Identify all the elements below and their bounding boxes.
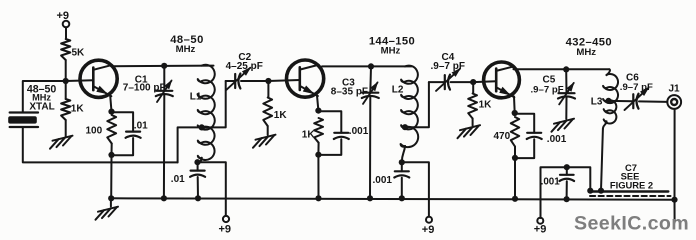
label C7 SEE FIGURE 2 <box>610 162 653 191</box>
resistor 470 (Q3 emitter) <box>494 117 520 158</box>
capacitor .001 (Q2 emitter bypass) <box>318 111 368 155</box>
svg-text:L1: L1 <box>190 91 202 102</box>
inductor L3 <box>603 69 618 129</box>
wire Q3 emitter network to rail <box>514 158 516 199</box>
resistor 1K (Q3 base) <box>468 82 492 118</box>
node Q2 emitter network bottom <box>315 152 321 158</box>
svg-text:.01: .01 <box>134 120 148 131</box>
node L2 tap <box>402 124 408 130</box>
node Q2 emitter at rail <box>315 195 321 201</box>
label L1 <box>190 91 202 102</box>
svg-text:8–35 pF: 8–35 pF <box>331 87 368 98</box>
svg-text:.001: .001 <box>349 126 369 137</box>
svg-text:L3: L3 <box>591 96 603 107</box>
wire emitter Q3 <box>513 97 516 114</box>
svg-text:.01: .01 <box>171 174 185 185</box>
label 48-50 MHz (stage 1) <box>170 34 204 55</box>
svg-text:.9–7 pF: .9–7 pF <box>431 61 465 72</box>
node C5 top <box>563 66 569 72</box>
node C4 out / Q3 base <box>470 79 476 85</box>
wire base Q2 <box>268 80 299 81</box>
resistor 1K (Q2 emitter) <box>302 118 323 155</box>
wire L3 bottom to C7 <box>601 129 603 191</box>
capacitor .01 (Q1 emitter bypass) <box>112 112 149 155</box>
inductor L2 <box>401 66 419 163</box>
svg-text:.001: .001 <box>541 177 561 188</box>
wire feedback riser to L1 tap <box>178 127 202 162</box>
wire Q2 emitter network to rail <box>317 155 319 199</box>
svg-text:1K: 1K <box>302 129 316 140</box>
inductor L1 <box>198 65 215 162</box>
ground rail (bottom bus) <box>111 198 676 199</box>
node L2 bypass at rail <box>399 195 405 201</box>
node L2 bottom <box>399 159 405 165</box>
crystal Y1 48-50 MHz <box>8 113 38 128</box>
wire crystal bottom feedback run <box>23 127 178 162</box>
svg-text:100: 100 <box>86 126 103 137</box>
svg-text:MHz: MHz <box>381 46 401 57</box>
power terminal +9 (stage 2 feed) <box>422 217 435 237</box>
wire base Q1 <box>66 79 94 82</box>
capacitor C7 chassis (dashed) <box>590 195 671 197</box>
svg-text:4–25 pF: 4–25 pF <box>226 61 263 72</box>
label L2 <box>392 84 404 95</box>
label 432-450 MHz (stage 3) <box>566 37 612 58</box>
svg-text:.9–7 pF: .9–7 pF <box>531 84 564 95</box>
label L3 <box>591 96 603 107</box>
watermark SeekIC.com <box>574 213 689 235</box>
label C6 <box>620 73 653 94</box>
node L1 bottom <box>194 159 200 165</box>
node C1 at rail <box>161 195 167 201</box>
wire emitter Q2 <box>317 96 318 111</box>
svg-text:.9–7 pF: .9–7 pF <box>620 82 653 93</box>
transistor Q2 <box>287 60 324 97</box>
transistor Q3 <box>484 62 520 98</box>
node C1 top <box>161 63 167 69</box>
ground (Q3 base 1K) <box>458 119 481 139</box>
wire +9 feed stage 2 <box>402 162 429 216</box>
wire L1 tap to C2 riser <box>202 81 226 127</box>
node Q3 emitter network bottom <box>512 155 518 161</box>
node emitter network bottom <box>108 152 114 158</box>
svg-text:5K: 5K <box>72 48 86 59</box>
capacitor C6 .9-7 pF <box>609 87 668 110</box>
svg-text:+9: +9 <box>219 223 232 235</box>
node emitter Q2 <box>315 108 321 114</box>
wire base Q3 <box>473 80 496 83</box>
resistor 100 (Q1 emitter) <box>86 115 117 155</box>
svg-text:MHz: MHz <box>176 44 196 55</box>
capacitor .001 (Q3 emitter bypass) <box>515 114 567 158</box>
node J1 at rail <box>671 197 677 203</box>
capacitor C1 trimmer 7-100 pF <box>156 66 173 199</box>
ground (C5) <box>552 119 575 132</box>
wire crystal top <box>23 81 66 113</box>
power terminal +9 (stage 1 feed) <box>219 216 232 235</box>
power terminal +9 (stage 3 feed) <box>534 218 547 236</box>
svg-text:1K: 1K <box>274 110 288 121</box>
svg-text:L2: L2 <box>392 84 404 95</box>
ground (Q1 base bias 1K) <box>50 120 73 149</box>
wire L2 tap to C4 riser <box>405 82 429 127</box>
svg-text:XTAL: XTAL <box>29 102 54 113</box>
svg-text:MHz: MHz <box>576 47 596 58</box>
capacitor .01 (L1 feed bypass) <box>171 162 205 198</box>
wire +9 feed stage 1 <box>198 162 226 216</box>
wire emitter Q1 <box>110 96 111 112</box>
label crystal 48-50 MHz XTAL <box>27 83 57 112</box>
capacitor C4 .9-7 pF <box>429 68 473 91</box>
node L3 tap <box>605 98 611 104</box>
node emitter ground at rail <box>108 195 114 201</box>
transistor Q1 <box>80 60 117 97</box>
label C2 <box>226 52 263 72</box>
capacitor C2 4-25 pF <box>226 67 269 90</box>
wire 5K to base node <box>65 60 67 81</box>
wire +9 feed stage 3 <box>541 167 591 218</box>
node Q3 emitter at rail <box>512 196 518 202</box>
node L1 tap <box>199 124 205 130</box>
label C3 <box>331 78 368 98</box>
svg-text:1K: 1K <box>479 100 493 111</box>
node stage-3 bypass at rail <box>564 196 570 202</box>
collector rail stage 3 <box>514 68 610 70</box>
node C3 top <box>368 63 374 69</box>
resistor 5K <box>61 39 85 60</box>
svg-text:+9: +9 <box>534 224 547 236</box>
wire J1 shield to rail <box>674 109 676 200</box>
capacitor C7 plate <box>587 188 668 194</box>
svg-text:J1: J1 <box>669 84 681 95</box>
resistor 1K (Q1 base bias) <box>61 81 84 120</box>
connector J1 <box>667 84 681 109</box>
svg-text:7–100 pF: 7–100 pF <box>123 83 166 94</box>
capacitor .001 (L2 feed bypass) <box>373 162 410 198</box>
svg-text:FIGURE 2: FIGURE 2 <box>610 180 653 191</box>
svg-text:SeekIC.com: SeekIC.com <box>574 213 689 235</box>
power terminal +9 (top left) <box>57 10 70 39</box>
svg-text:.001: .001 <box>373 175 393 186</box>
node emitter Q1 <box>108 109 114 115</box>
capacitor C3 trimmer 8-35 pF <box>362 66 379 198</box>
svg-text:.001: .001 <box>547 134 567 145</box>
capacitor .001 (stage 3 feed bypass) <box>541 167 575 199</box>
ground (Q2 base 1K) <box>253 126 276 148</box>
label 144-150 MHz (stage 2) <box>369 36 415 57</box>
label C5 <box>531 75 564 96</box>
capacitor C5 trimmer .9-7 pF <box>558 69 575 119</box>
ground (main rail) <box>96 198 119 219</box>
collector rail stage 2 <box>322 65 412 67</box>
svg-text:470: 470 <box>494 131 511 142</box>
label C1 <box>123 74 166 93</box>
node emitter Q3 <box>512 110 518 116</box>
svg-text:+9: +9 <box>422 224 435 236</box>
label C4 <box>431 52 465 72</box>
svg-text:1K: 1K <box>71 104 85 115</box>
wire emitter network to ground rail <box>110 155 112 198</box>
node base Q1 <box>63 78 69 84</box>
node C2 out / Q2 base <box>265 78 271 84</box>
node stage-3 bypass top <box>564 164 570 170</box>
wire J1 ground stub <box>674 200 676 223</box>
resistor 1K (Q2 base) <box>263 81 287 126</box>
node C3 at rail <box>367 195 373 201</box>
node L1 bypass at rail <box>195 195 201 201</box>
collector rail stage 1 <box>111 65 214 68</box>
